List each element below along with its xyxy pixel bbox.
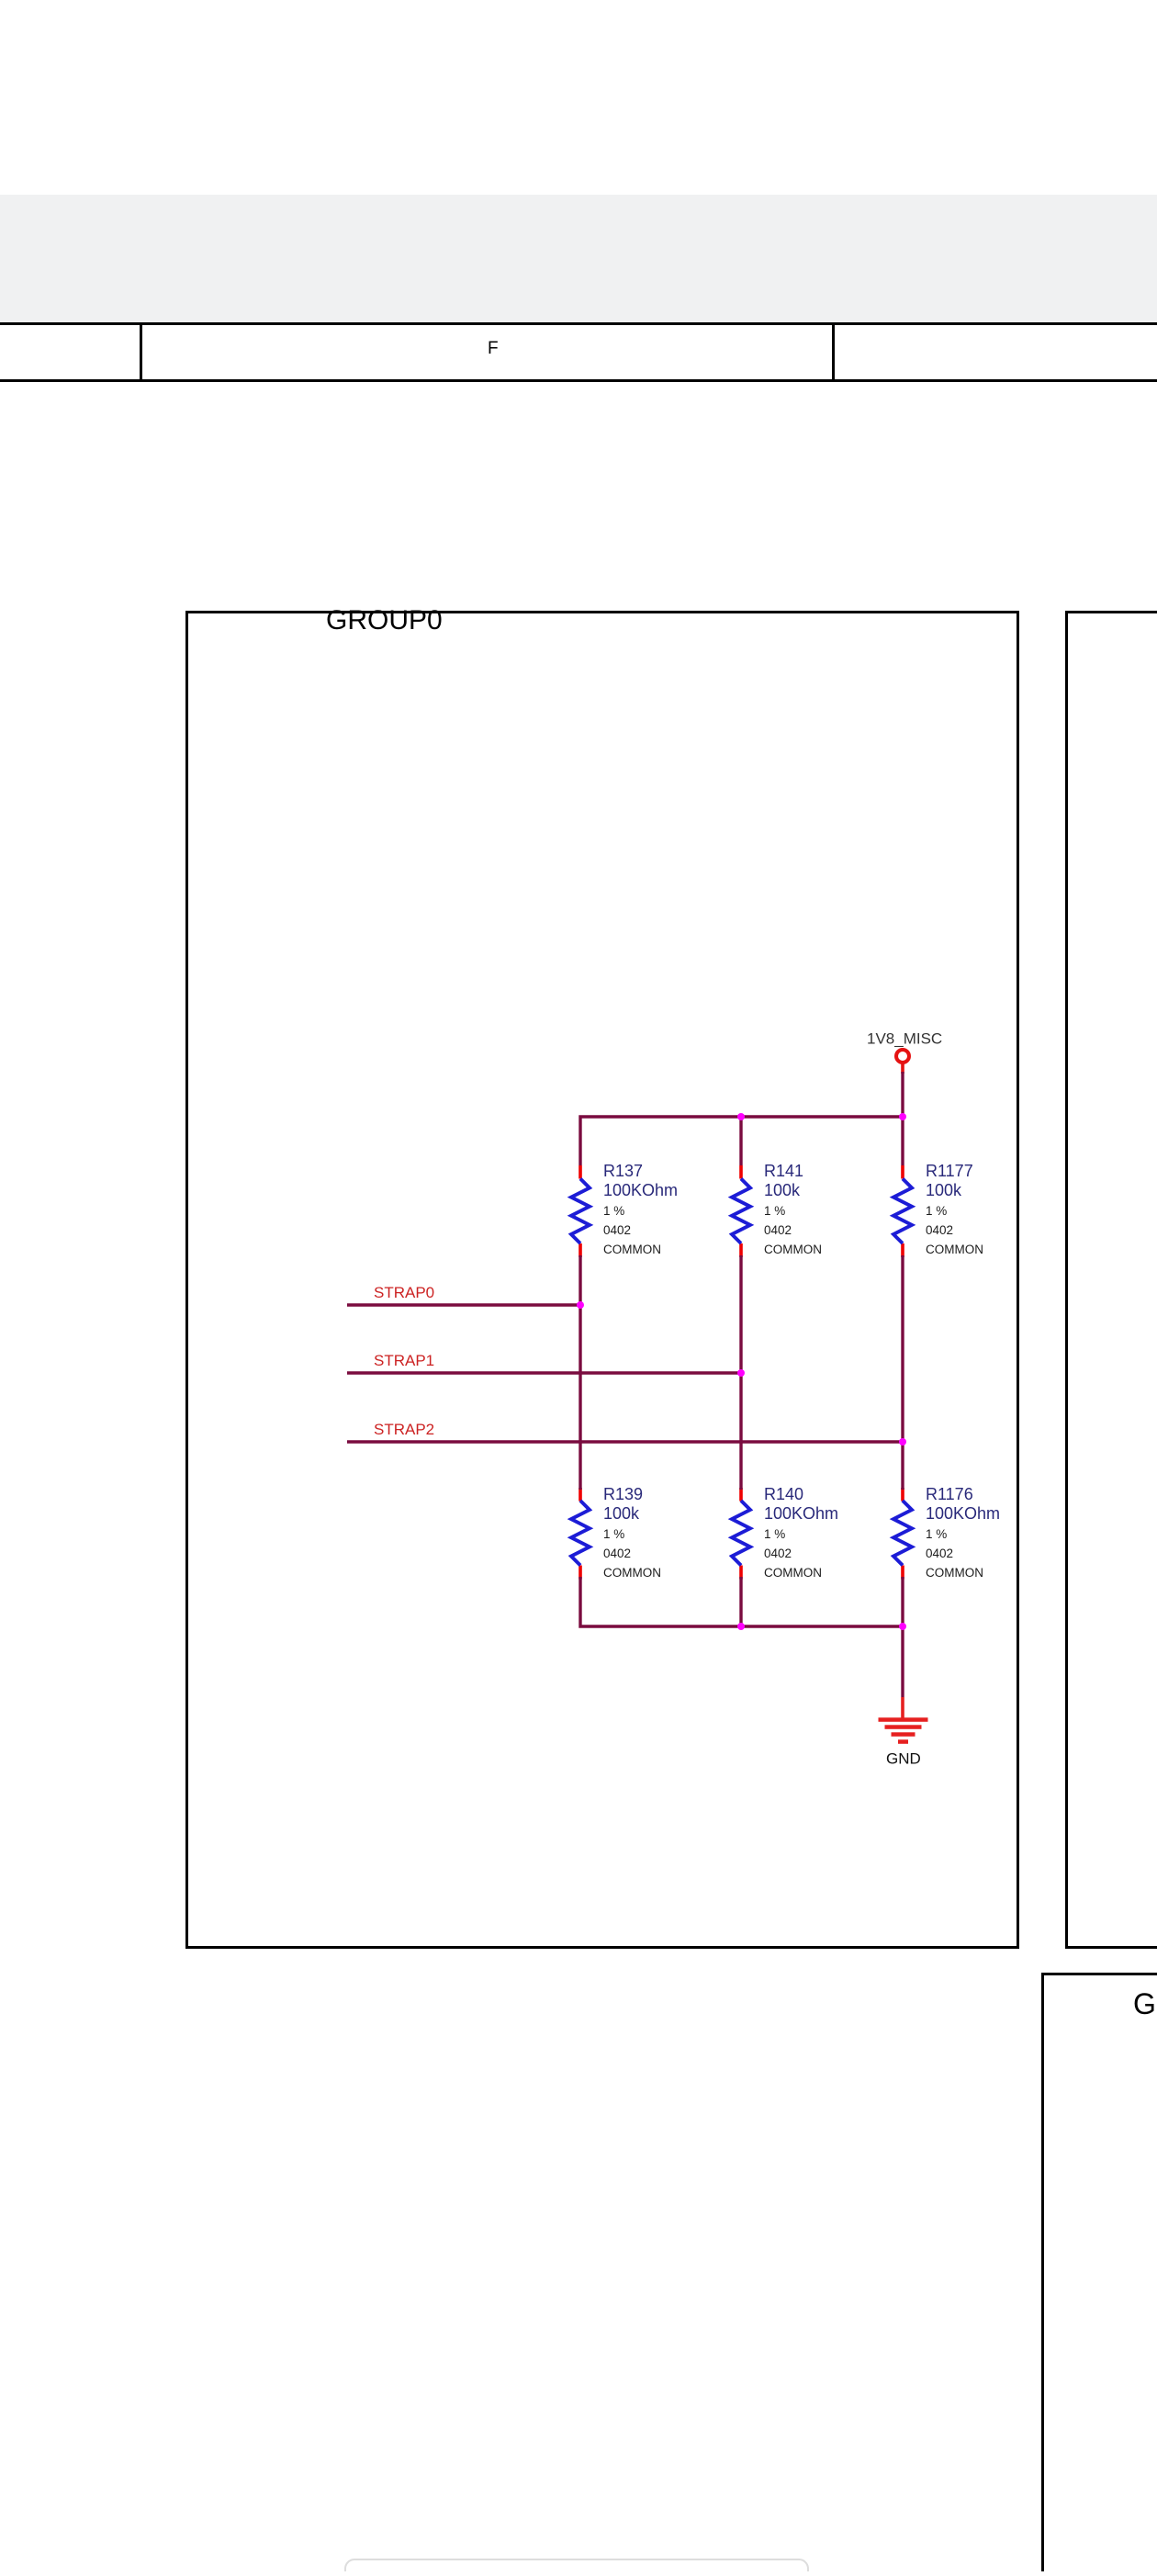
wire STRAP2 [347,1442,903,1490]
svg-text:100k: 100k [926,1181,962,1199]
svg-text:0402: 0402 [926,1223,953,1237]
resistor R139 pin top [578,1488,582,1502]
ground bar 2 [885,1725,922,1729]
wire power drop to top bus [901,1072,904,1117]
wire R137 to STRAP0 [578,1255,581,1305]
header gray band [0,195,1157,322]
wire R140 to bottom bus [739,1577,742,1626]
resistor R141 body [732,1179,750,1244]
svg-text:100KOhm: 100KOhm [926,1504,1000,1523]
resistor R139 pin bottom [578,1566,582,1580]
svg-text:100KOhm: 100KOhm [603,1181,678,1199]
svg-text:R137: R137 [603,1162,643,1180]
svg-text:STRAP1: STRAP1 [374,1352,434,1369]
ground stem red [901,1697,904,1719]
svg-text:0402: 0402 [603,1547,631,1560]
svg-text:0402: 0402 [764,1547,792,1560]
svg-text:100k: 100k [603,1504,640,1523]
svg-text:COMMON: COMMON [764,1566,822,1580]
resistor R1177 labels [926,1162,983,1256]
svg-text:COMMON: COMMON [603,1566,661,1580]
resistor R139 body [571,1501,590,1566]
svg-text:R140: R140 [764,1485,803,1503]
junction STRAP1 [737,1369,745,1377]
resistor R140 labels [764,1485,838,1580]
resistor R1176 labels [926,1485,1000,1580]
wire top bus [580,1117,903,1165]
svg-text:R139: R139 [603,1485,643,1503]
resistor R140 body [732,1501,750,1566]
svg-text:STRAP2: STRAP2 [374,1421,434,1438]
svg-text:COMMON: COMMON [926,1243,983,1256]
svg-text:1 %: 1 % [603,1204,624,1218]
svg-text:0402: 0402 [603,1223,631,1237]
wire R141 to STRAP1 [739,1255,742,1373]
svg-text:1 %: 1 % [926,1204,947,1218]
resistor R1177 pin bottom [901,1243,904,1257]
junction top bus at R1177 [899,1113,906,1120]
wire R1177 to STRAP2 [901,1255,904,1442]
resistor R140 pin bottom [739,1566,743,1580]
resistor R1176 body [893,1501,912,1566]
resistor R137 pin bottom [578,1243,582,1257]
svg-text:R1177: R1177 [926,1162,973,1180]
wire top bus drop R141 [739,1117,742,1165]
bottom floating pill [345,2559,808,2576]
ground bar 3 [892,1732,915,1737]
svg-text:100KOhm: 100KOhm [764,1504,838,1523]
wire R1176 to bottom bus [901,1577,904,1626]
resistor R137 pin top [578,1165,582,1179]
title block row top border [0,322,1157,325]
svg-text:1 %: 1 % [926,1527,947,1541]
wire STRAP1 [347,1373,741,1490]
svg-text:STRAP0: STRAP0 [374,1284,434,1301]
svg-text:R1176: R1176 [926,1485,973,1503]
svg-text:COMMON: COMMON [603,1243,661,1256]
svg-text:1 %: 1 % [764,1527,785,1541]
svg-text:F: F [488,339,499,358]
wire bottom bus [580,1577,903,1697]
junction STRAP0 [577,1301,584,1309]
svg-text:1 %: 1 % [603,1527,624,1541]
svg-text:0402: 0402 [764,1223,792,1237]
resistor R1177 pin top [901,1165,904,1179]
resistor R141 labels [764,1162,822,1256]
ground bar 1 [879,1717,928,1722]
junction bottom bus at R1176 [899,1623,906,1630]
ground bar 4 [898,1739,908,1744]
wire STRAP0 [347,1305,580,1490]
resistor R1176 pin top [901,1488,904,1502]
svg-text:GROUP0: GROUP0 [326,605,443,636]
sheet box GROUP0 [187,613,1018,1948]
power port stem [901,1064,904,1074]
resistor R141 pin top [739,1165,743,1179]
svg-text:COMMON: COMMON [926,1566,983,1580]
resistor R140 pin top [739,1488,743,1502]
svg-text:COMMON: COMMON [764,1243,822,1256]
resistor R1177 body [893,1179,912,1244]
svg-text:R141: R141 [764,1162,803,1180]
svg-text:GND: GND [886,1750,921,1768]
sheet box bottom-right (clipped) [1043,1974,1157,2576]
junction top bus at R141 [737,1113,745,1120]
power port circle 1V8_MISC [896,1050,909,1063]
resistor R139 labels [603,1485,661,1580]
resistor R1176 pin bottom [901,1566,904,1580]
resistor R137 body [571,1179,590,1244]
title block row bottom border [0,379,1157,382]
svg-text:G: G [1133,1987,1156,2020]
svg-text:100k: 100k [764,1181,801,1199]
junction STRAP2 [899,1438,906,1445]
svg-text:1V8_MISC: 1V8_MISC [867,1030,942,1048]
svg-text:1 %: 1 % [764,1204,785,1218]
resistor R137 labels [603,1162,678,1256]
title block divider right [832,322,835,382]
svg-text:0402: 0402 [926,1547,953,1560]
sheet box right (clipped) [1067,613,1157,1948]
junction bottom bus at R140 [737,1623,745,1630]
title block divider left [140,322,142,382]
resistor R141 pin bottom [739,1243,743,1257]
